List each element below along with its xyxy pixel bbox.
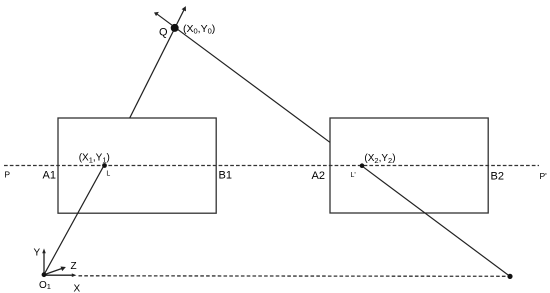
svg-text:L': L' [351, 172, 356, 179]
Z axis [44, 268, 63, 275]
node ground point dot [507, 274, 512, 279]
svg-text:B2: B2 [491, 171, 504, 183]
node L dot [102, 163, 107, 168]
baseline dashed line along X axis [79, 275, 511, 278]
svg-text:L: L [106, 170, 110, 177]
Y axis [43, 253, 45, 275]
epipolar dashed line P-P' [4, 165, 539, 167]
node L' dot [360, 163, 365, 168]
wire ray from arrow through Q to right rect left edge [157, 14, 330, 142]
svg-text:O1: O1 [39, 280, 51, 291]
wire ray L' to ground point [362, 166, 510, 277]
svg-text:Y: Y [34, 248, 41, 259]
svg-text:Q: Q [159, 27, 168, 39]
node O1 origin dot [42, 272, 47, 277]
svg-text:P': P' [540, 171, 548, 181]
svg-text:A1: A1 [43, 170, 56, 182]
wire ray O1 to L [44, 166, 104, 275]
wire ray from left rect top edge through Q with arrow [130, 9, 185, 118]
svg-text:P: P [4, 169, 10, 179]
svg-text:(X2,Y2): (X2,Y2) [364, 153, 395, 165]
right image plane rectangle [330, 118, 488, 213]
node Q dot [171, 24, 179, 32]
svg-text:X: X [74, 284, 81, 293]
svg-text:B1: B1 [219, 170, 232, 182]
svg-text:Z: Z [71, 261, 77, 272]
svg-text:A2: A2 [312, 170, 325, 182]
svg-text:(X0,Y0): (X0,Y0) [183, 23, 215, 36]
left image plane rectangle [58, 118, 216, 213]
X axis [44, 274, 73, 276]
svg-text:(X1,Y1): (X1,Y1) [79, 153, 110, 165]
